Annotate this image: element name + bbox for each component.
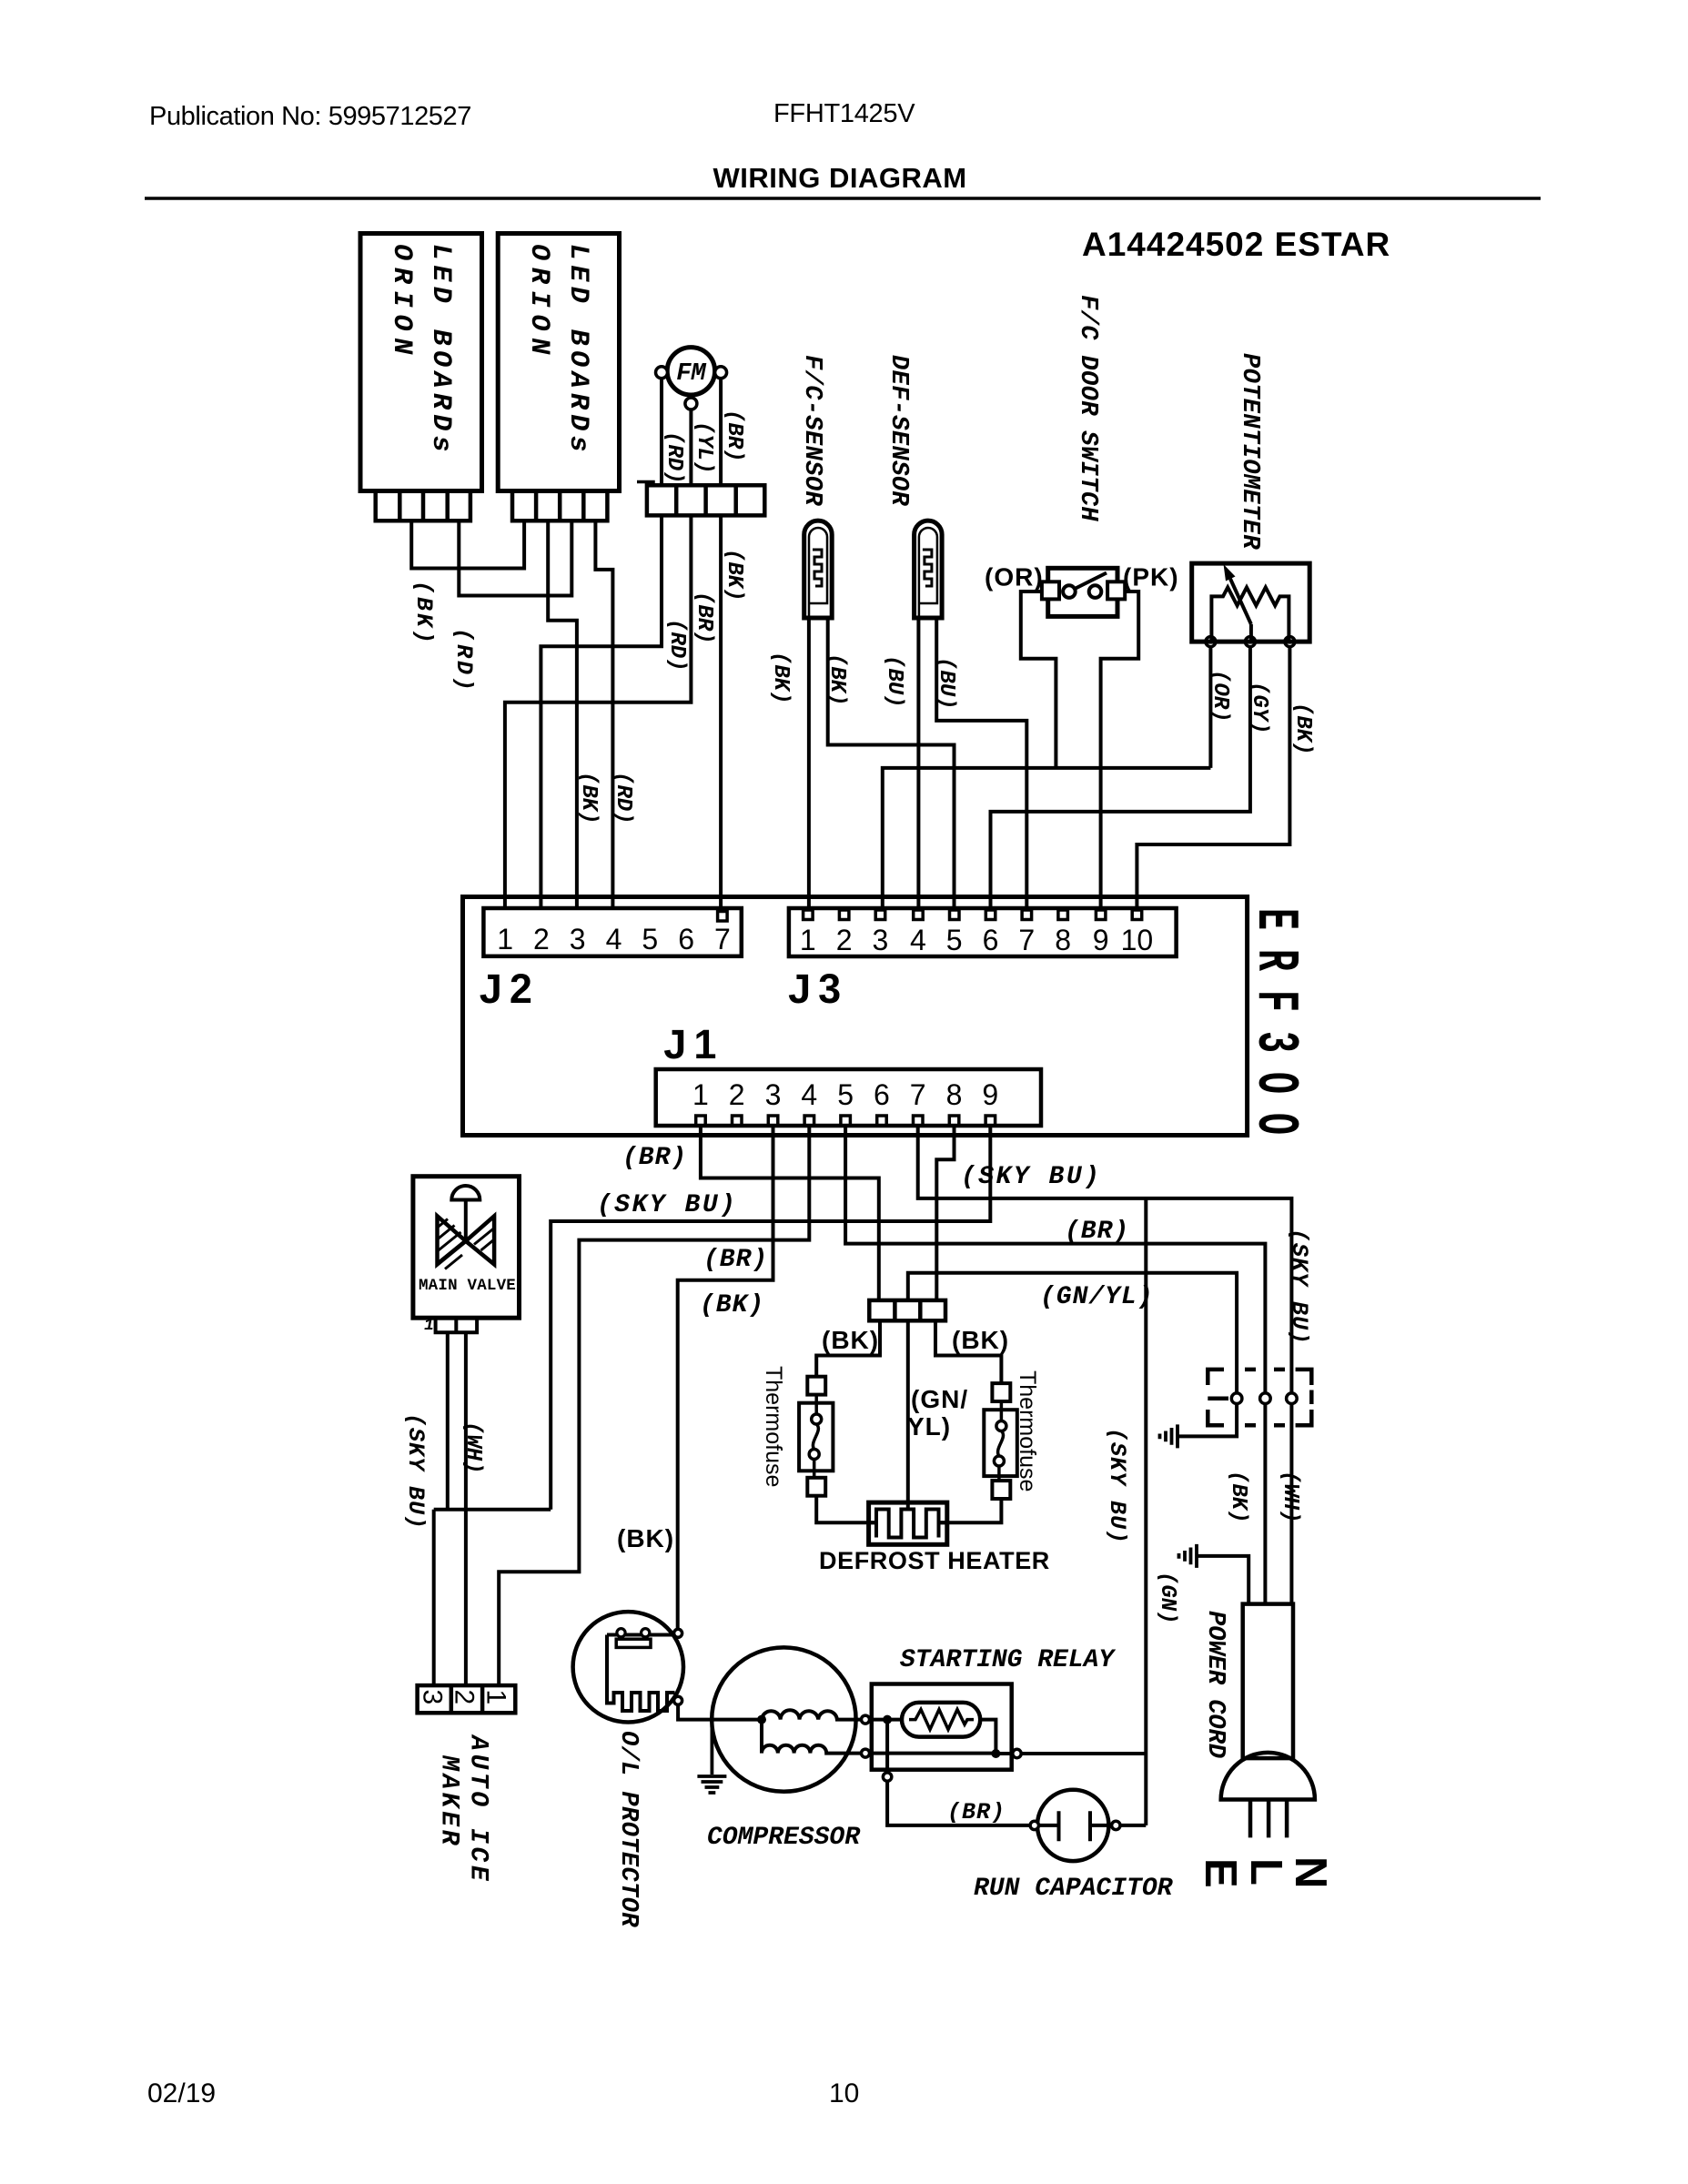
power cord body (1243, 1604, 1293, 1759)
svg-text:FFHT1425V: FFHT1425V (773, 99, 915, 128)
power connector pin2 circle (1260, 1393, 1271, 1404)
svg-text:(BK): (BK) (410, 581, 437, 646)
title WIRING DIAGRAM (713, 162, 966, 194)
svg-text:(BK): (BK) (768, 652, 793, 704)
connector J2 box (483, 908, 741, 956)
svg-text:(BK): (BK) (617, 1524, 674, 1552)
wire label (GY) pot (1247, 682, 1271, 734)
svg-text:LED BOARDs: LED BOARDs (562, 244, 593, 457)
wire (OR) net switch+pot to J3 pin3 (883, 646, 1211, 908)
wire J1 pin9 (SKY BU) to main valve and ice maker (434, 1126, 991, 1686)
wire label (GN/ defrost (911, 1385, 968, 1413)
ground symbol 2 (1179, 1544, 1198, 1568)
svg-text:4: 4 (910, 924, 926, 956)
label F/C DOOR SWITCH (1074, 295, 1101, 521)
svg-text:3: 3 (873, 924, 889, 956)
wire label (BK) pot (1290, 703, 1315, 755)
svg-text:8: 8 (1055, 924, 1071, 956)
compressor winding junction dot (757, 1715, 766, 1724)
wire main valve pin2 (WH) to ice maker pin2 (464, 1332, 468, 1685)
wire label (BK) J1 pin3 drop (700, 1291, 764, 1319)
wire DEF sensor right (BU) to J3 pin7 (936, 618, 1026, 908)
wire J1 pin3 (BK) to O/L protector (678, 1126, 773, 1630)
wire J1 pin1 (BR) to defrost connector pin1 (701, 1126, 879, 1300)
svg-text:A14424502 ESTAR: A14424502 ESTAR (1082, 226, 1390, 263)
O/L protector element (607, 1629, 675, 1711)
svg-text:1: 1 (497, 923, 513, 955)
defrost heater text (819, 1547, 1050, 1574)
wire label (BK) board1 (410, 581, 437, 646)
wire board1-pin2 to board2-pin1 jumper (411, 521, 524, 568)
wire J1 pin8 to defrost connector pin3 (936, 1126, 954, 1300)
wire F/C sensor left (BK) to J3 pin1 (807, 618, 811, 908)
svg-text:POWER CORD: POWER CORD (1201, 1611, 1228, 1758)
wire label (BK) O/L (617, 1524, 674, 1552)
wire pot middle (GY) to J3 pin6 (991, 646, 1250, 908)
svg-text:DEF-SENSOR: DEF-SENSOR (884, 355, 912, 506)
ORION LED board 2 text LED BOARDs (562, 244, 593, 457)
run capacitor circle (1037, 1790, 1108, 1861)
svg-text:4: 4 (606, 923, 622, 955)
connector J1 label (663, 1021, 723, 1067)
svg-text:(BK): (BK) (576, 772, 601, 824)
wire label (SKY BU) J1 pin7 line (961, 1163, 1101, 1191)
O/L protector circle (573, 1612, 683, 1722)
defrost heater element (869, 1510, 947, 1538)
wire label (GN) power cord (1155, 1572, 1179, 1624)
fan motor FM circle (667, 348, 714, 395)
wire label (BR) J1 pin1 (622, 1144, 687, 1172)
svg-text:(BU): (BU) (934, 657, 958, 710)
wire power cord (GN) to ground (1197, 1556, 1248, 1604)
wire run capacitor to power line (1120, 1824, 1146, 1827)
svg-text:MAIN VALVE: MAIN VALVE (419, 1277, 516, 1295)
wire compressor main to relay resistor (870, 1718, 903, 1722)
wire label (BK) to J2 pin7 (722, 549, 746, 602)
label POTENTIOMETER (1236, 353, 1263, 550)
wire relay resistor right to lower rail (980, 1720, 996, 1754)
connector J1 pin pads (696, 1116, 996, 1126)
wire FM right terminal (BR) down to connector (719, 377, 723, 485)
wire board1-pin4 to board2-pin3 jumper (459, 521, 571, 595)
wire label (YL) FM (692, 421, 716, 474)
svg-text:2: 2 (533, 923, 550, 955)
svg-text:1: 1 (800, 924, 816, 956)
main valve text (419, 1277, 516, 1295)
F/C door switch right pad (1107, 581, 1125, 599)
wire right thermofuse to heater (939, 1499, 1001, 1522)
svg-text:E: E (1196, 1858, 1245, 1888)
svg-text:COMPRESSOR: COMPRESSOR (707, 1824, 861, 1852)
run capacitor plates (1039, 1811, 1112, 1841)
wire label (BR) run capacitor (947, 1799, 1006, 1825)
connector J2 pin7 pad (718, 912, 728, 922)
svg-text:(OR): (OR) (985, 563, 1044, 591)
svg-text:8: 8 (946, 1078, 963, 1111)
footer date (147, 2078, 216, 2108)
auto ice maker connector (418, 1685, 516, 1713)
wire label (OR) door switch (985, 563, 1044, 591)
wire label (BK) at J2 pin3 (576, 772, 601, 824)
wire J1 pin7 (SKY BU) to power connector (918, 1126, 1292, 1604)
right thermofuse body (984, 1401, 1017, 1481)
svg-text:(SKY BU): (SKY BU) (961, 1163, 1101, 1191)
wire compressor aux to relay output (870, 1752, 1013, 1755)
auto ice maker text MAKER (435, 1754, 463, 1848)
svg-text:5: 5 (946, 924, 963, 956)
run capacitor text (974, 1875, 1174, 1903)
wire defrost pin2 (GN/YL) to heater (906, 1320, 910, 1510)
wire FM (BR) to J2 pin1 (505, 515, 692, 908)
label Thermofuse right (1015, 1370, 1040, 1491)
wire defrost pin1 (BK) to left thermofuse (816, 1320, 880, 1376)
svg-text:6: 6 (983, 924, 999, 956)
svg-text:ORION: ORION (523, 244, 554, 361)
svg-text:Publication No: 5995712527: Publication No: 5995712527 (149, 102, 471, 131)
svg-text:F/C DOOR SWITCH: F/C DOOR SWITCH (1074, 295, 1101, 521)
svg-text:(WH): (WH) (1278, 1471, 1302, 1523)
svg-text:ORION: ORION (386, 244, 417, 361)
wire (SKY BU) branch to starting relay and run capacitor (1144, 1198, 1147, 1825)
compressor aux winding (762, 1720, 862, 1754)
compressor ground (697, 1720, 726, 1793)
wire FM (RD) to J2 pin2 (541, 515, 662, 908)
ORION LED board 2 box (498, 234, 619, 491)
svg-text:(BK): (BK) (722, 549, 746, 602)
title rule (145, 197, 1541, 200)
starting relay box (872, 1684, 1012, 1770)
right thermofuse top pad (992, 1383, 1010, 1401)
svg-text:(OR): (OR) (1208, 670, 1232, 723)
wire label (BK) power cord (1226, 1471, 1250, 1523)
svg-text:(GN/: (GN/ (911, 1385, 968, 1413)
wire F/C sensor right (BK) to J3 pin5 (828, 618, 955, 908)
svg-text:(SKY BU): (SKY BU) (402, 1413, 429, 1530)
starting relay terminal bottom-left (883, 1773, 891, 1781)
left thermofuse top pad (807, 1377, 825, 1395)
F/C door switch contact left (1063, 585, 1076, 598)
starting relay terminal right (1013, 1749, 1021, 1757)
starting relay resistor capsule (902, 1703, 980, 1737)
svg-text:(GY): (GY) (1247, 682, 1271, 734)
svg-text:F/C-SENSOR: F/C-SENSOR (798, 355, 825, 506)
svg-text:J3: J3 (788, 966, 848, 1012)
compressor terminal main (862, 1715, 870, 1724)
wire label (RD) FM (662, 431, 686, 484)
svg-text:(BK): (BK) (1290, 703, 1315, 755)
wire label (WH) main valve (460, 1421, 485, 1474)
svg-text:10: 10 (829, 2078, 859, 2108)
auto ice maker pin label 2 (450, 1690, 480, 1705)
wire door switch right (PK) to J3 pin9 (1101, 591, 1139, 908)
wire label (GN/YL) line (1040, 1283, 1154, 1311)
svg-text:6: 6 (874, 1078, 890, 1111)
svg-text:2: 2 (729, 1078, 745, 1111)
svg-text:RUN CAPACITOR: RUN CAPACITOR (974, 1875, 1174, 1903)
left thermofuse bottom pad (807, 1478, 825, 1496)
wire label (OR) pot (1208, 670, 1232, 723)
defrost connector (869, 1300, 945, 1320)
power plug dome (1221, 1753, 1315, 1800)
label DEF-SENSOR (884, 355, 912, 506)
svg-text:02/19: 02/19 (147, 2078, 216, 2108)
svg-text:Thermofuse: Thermofuse (761, 1366, 786, 1487)
svg-text:3: 3 (418, 1690, 448, 1705)
header model FFHT1425V (773, 99, 915, 128)
compressor main winding (762, 1710, 862, 1719)
wire label (SKY BU) power side (1286, 1228, 1312, 1345)
wire FM (BK) to J2 pin7 (719, 515, 723, 913)
FM terminal right (715, 367, 727, 379)
svg-text:5: 5 (642, 923, 658, 955)
wire FM left terminal (RD) down to connector (660, 377, 663, 485)
svg-text:N: N (1286, 1856, 1335, 1888)
potentiometer terminal left (1206, 637, 1216, 647)
wire defrost connector pin2 (GN/YL) up and to power connector pin1 and ground (908, 1273, 1237, 1437)
svg-text:(BK): (BK) (952, 1326, 1009, 1354)
ORION LED board 1 connector teeth (376, 491, 470, 521)
svg-text:2: 2 (836, 924, 853, 956)
power plug label E (1196, 1858, 1245, 1888)
label Thermofuse left (761, 1366, 786, 1487)
svg-text:(BR): (BR) (1065, 1218, 1129, 1246)
svg-text:(SKY BU): (SKY BU) (597, 1191, 737, 1219)
wire relay lower-left terminal stub (885, 1720, 889, 1773)
main valve pin1 marker (424, 1317, 434, 1335)
wire label (BK) defrost left (822, 1326, 879, 1354)
svg-text:3: 3 (570, 923, 586, 955)
svg-text:(RD): (RD) (662, 431, 686, 484)
svg-text:(BK): (BK) (1226, 1471, 1250, 1523)
wire FM bottom terminal (YL) down to connector (689, 409, 692, 485)
svg-text:(GN/YL): (GN/YL) (1040, 1283, 1154, 1311)
ground symbol 1 (1160, 1424, 1178, 1448)
potentiometer wiper arrow (1224, 564, 1251, 642)
fan motor FM text (676, 360, 706, 388)
svg-text:(BR): (BR) (622, 1144, 687, 1172)
svg-text:(BK): (BK) (824, 653, 849, 706)
left thermofuse body (799, 1395, 833, 1478)
svg-text:AUTO ICE: AUTO ICE (464, 1734, 492, 1884)
F/C door switch blade (1075, 573, 1107, 590)
svg-text:1: 1 (481, 1690, 511, 1705)
connector J1 pin numbers (692, 1078, 998, 1111)
svg-text:(RD): (RD) (611, 772, 635, 824)
svg-text:J1: J1 (663, 1021, 723, 1067)
power connector pin1 circle (1231, 1393, 1242, 1404)
svg-text:9: 9 (982, 1078, 998, 1111)
wire J1 pin5 (BR) to power connector (845, 1126, 1265, 1604)
svg-text:7: 7 (1018, 924, 1035, 956)
label A14424502 ESTAR (1082, 226, 1390, 263)
wire label (RD) at J2 pin4 (611, 772, 635, 824)
wire left thermofuse to heater (816, 1496, 876, 1523)
auto ice maker pin label 3 (418, 1690, 448, 1705)
svg-text:O/L PROTECTOR: O/L PROTECTOR (614, 1731, 642, 1927)
starting relay junction dot right (991, 1749, 1000, 1758)
F/C sensor capsule (804, 521, 833, 618)
wire pot right (BK) to J3 pin10 (1137, 646, 1289, 908)
svg-text:(GN): (GN) (1155, 1572, 1179, 1624)
wire label (RD) board1 (450, 628, 477, 693)
svg-text:5: 5 (837, 1078, 854, 1111)
power connector housing dashed (1208, 1370, 1311, 1425)
svg-text:2: 2 (450, 1690, 480, 1705)
main valve symbol (438, 1186, 495, 1269)
ORION LED board 1 box (360, 234, 482, 491)
svg-text:9: 9 (1093, 924, 1109, 956)
wire board2-pin4 (RD) to J2 pin4 (595, 521, 612, 908)
svg-text:(WH): (WH) (460, 1421, 485, 1474)
wire label (SKY BU) main valve (402, 1413, 429, 1530)
wire J1 pin4 (BR) to ice maker pin1 (499, 1126, 809, 1686)
wire relay (BR) to run capacitor (887, 1781, 1030, 1825)
svg-text:DEFROST HEATER: DEFROST HEATER (819, 1547, 1050, 1574)
FM terminal left (656, 367, 668, 379)
connector J3 box (789, 908, 1177, 956)
auto ice maker text AUTO ICE (464, 1734, 492, 1884)
ORION LED board 2 text ORION (523, 244, 554, 361)
F/C door switch contact right (1089, 585, 1102, 598)
header publication number (149, 102, 471, 131)
svg-text:(PK): (PK) (1123, 563, 1179, 591)
wire label (SKY BU) J1 pin9 line (597, 1191, 737, 1219)
connector J3 pin pads (804, 910, 1142, 920)
right thermofuse bottom pad (992, 1481, 1010, 1499)
svg-text:(RD): (RD) (450, 628, 477, 693)
main valve connector teeth (436, 1318, 477, 1332)
connector J3 label (788, 966, 848, 1012)
power connector pin3 circle (1287, 1393, 1298, 1404)
svg-text:POTENTIOMETER: POTENTIOMETER (1236, 353, 1263, 550)
connector J1 box (656, 1069, 1041, 1126)
svg-text:1: 1 (692, 1078, 709, 1111)
svg-text:(YL): (YL) (692, 421, 716, 474)
svg-text:L: L (1241, 1858, 1290, 1886)
potentiometer terminal middle (1245, 637, 1255, 647)
svg-text:MAKER: MAKER (435, 1754, 463, 1848)
O/L protector terminal top (674, 1629, 682, 1637)
wire label (SKY BU) compressor line (1104, 1428, 1130, 1544)
wire label (RD) below FM connector (664, 619, 689, 672)
compressor terminal aux (862, 1749, 870, 1757)
wire label (BR) FM (722, 409, 746, 462)
FM connector pin1 marker (637, 482, 653, 486)
ORION LED board 1 text LED BOARDs (425, 244, 456, 457)
svg-text:10: 10 (1121, 924, 1154, 956)
ERF300 board name text (1241, 908, 1308, 1154)
starting relay junction dot left (883, 1715, 892, 1724)
defrost heater box (869, 1502, 947, 1544)
power plug prongs (1250, 1800, 1287, 1838)
wire O/L protector to compressor (678, 1704, 762, 1719)
ORION LED board 2 connector teeth (512, 491, 607, 521)
svg-text:6: 6 (678, 923, 694, 955)
run capacitor terminal left (1030, 1821, 1038, 1829)
F/C door switch left pad (1042, 581, 1059, 599)
run capacitor terminal right (1112, 1821, 1120, 1829)
ORION LED board 1 text ORION (386, 244, 417, 361)
DEF sensor capsule (915, 521, 943, 618)
wire board2-pin2 (BK) to J2 pin3 (548, 521, 577, 908)
connector J3 pin numbers (800, 924, 1153, 956)
wire label (BU) DEF left (882, 655, 906, 708)
auto ice maker pin label 1 (481, 1690, 511, 1705)
O/L protector terminal bottom (674, 1696, 682, 1704)
wire DEF sensor left (BU) to J3 pin4 (916, 618, 920, 908)
label O/L PROTECTOR (614, 1731, 642, 1927)
compressor circle (712, 1647, 855, 1791)
svg-text:7: 7 (910, 1078, 926, 1111)
wire label (BR) below FM connector (692, 591, 716, 644)
wire label (BR) J1 pin3 line (703, 1246, 768, 1274)
main valve box (413, 1177, 520, 1319)
svg-text:Thermofuse: Thermofuse (1015, 1370, 1040, 1491)
FM connector strip (647, 485, 764, 515)
wire label (BK) defrost right (952, 1326, 1009, 1354)
power cord text (1201, 1611, 1228, 1758)
potentiometer box (1192, 563, 1310, 642)
svg-text:J2: J2 (480, 966, 540, 1012)
wire label (WH) power cord (1278, 1471, 1302, 1523)
F/C door switch body (1048, 568, 1117, 616)
svg-text:(BU): (BU) (882, 655, 906, 708)
svg-text:7: 7 (714, 923, 731, 955)
svg-text:1: 1 (424, 1317, 434, 1335)
potentiometer resistor element (1211, 587, 1289, 642)
svg-text:ERF3OO: ERF3OO (1241, 908, 1308, 1154)
svg-text:(BR): (BR) (722, 409, 746, 462)
wire defrost pin3 (BK) to right thermofuse (935, 1320, 1001, 1383)
label F/C-SENSOR (798, 355, 825, 506)
svg-text:WIRING DIAGRAM: WIRING DIAGRAM (713, 162, 966, 194)
svg-text:(SKY BU): (SKY BU) (1286, 1228, 1312, 1345)
svg-text:(BK): (BK) (700, 1291, 764, 1319)
wire label (BK) F/C left (768, 652, 793, 704)
potentiometer terminal right (1285, 637, 1295, 647)
svg-text:FM: FM (676, 360, 706, 388)
svg-text:4: 4 (801, 1078, 817, 1111)
FM terminal bottom (685, 398, 697, 409)
connector J2 label (480, 966, 540, 1012)
wire label (BU) DEF right (934, 657, 958, 710)
wire door switch left (OR) jog down (1021, 591, 1056, 768)
starting relay text (900, 1646, 1116, 1674)
wire label YL) defrost (907, 1412, 951, 1441)
wire label (PK) door switch (1123, 563, 1179, 591)
svg-text:(SKY BU): (SKY BU) (1104, 1428, 1130, 1544)
svg-text:(BK): (BK) (822, 1326, 879, 1354)
svg-text:STARTING RELAY: STARTING RELAY (900, 1646, 1116, 1674)
svg-text:(BR): (BR) (947, 1799, 1006, 1825)
svg-text:(RD): (RD) (664, 619, 689, 672)
svg-text:LED BOARDs: LED BOARDs (425, 244, 456, 457)
wire label (BK) F/C right (824, 653, 849, 706)
svg-text:(BR): (BR) (692, 591, 716, 644)
wire label (BR) J1 pin5 line (1065, 1218, 1129, 1246)
svg-text:(BR): (BR) (703, 1246, 768, 1274)
ERF300 board box (463, 897, 1248, 1136)
power plug label L (1241, 1858, 1290, 1886)
svg-text:3: 3 (765, 1078, 782, 1111)
svg-text:YL): YL) (907, 1412, 951, 1441)
footer page number (829, 2078, 859, 2108)
connector J2 pin numbers (497, 923, 731, 955)
label COMPRESSOR (707, 1824, 861, 1852)
wire relay output to power line (1021, 1752, 1146, 1755)
power plug label N (1286, 1856, 1335, 1888)
